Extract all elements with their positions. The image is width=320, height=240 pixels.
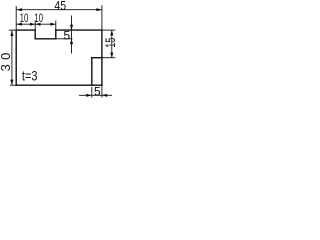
bend line horizontal xyxy=(92,57,102,59)
bend line vertical xyxy=(91,58,93,85)
arrow 30 top (points up) xyxy=(10,31,13,36)
arrow 30 bottom (points down) xyxy=(10,80,13,85)
extension line notch right wall up xyxy=(55,21,57,31)
arrow 10 right at 55.7 xyxy=(50,23,55,26)
extension notch bottom to right xyxy=(56,38,73,40)
extension line notch left wall up xyxy=(34,21,36,31)
arrow 5 notch top (points down, tip at top edge) xyxy=(70,25,73,30)
notch left wall xyxy=(34,30,36,39)
extension bend line right (for 15 dim) xyxy=(102,57,115,59)
svg-text:45: 45 xyxy=(54,0,66,13)
dim line 5 notch vertical xyxy=(71,16,73,54)
extension bottom edge left (for 30 dim) xyxy=(10,84,16,86)
svg-text:t=3: t=3 xyxy=(22,67,38,83)
extension line left top (for 45/10 dims) xyxy=(15,6,17,30)
arrow 45 right xyxy=(96,8,101,11)
arrow 5 bottom right (points left, tip at 101.9) xyxy=(102,94,107,97)
notch bottom xyxy=(35,38,56,40)
dim line 15 xyxy=(111,30,113,57)
arrow 10 left at 16.5 xyxy=(17,23,22,26)
arrow 15 bottom (points down) xyxy=(110,53,113,58)
extension top edge left (for 30 dim) xyxy=(9,29,16,31)
arrow 45 left xyxy=(17,8,22,11)
extension top edge right (for 15 dim) xyxy=(102,29,115,31)
dim line 5 bottom with tails xyxy=(79,94,92,96)
part bottom edge xyxy=(16,84,102,86)
dim line 45 xyxy=(17,9,102,11)
svg-text:15: 15 xyxy=(102,37,118,48)
dim line 10,10 xyxy=(17,23,56,25)
part outline: top-right segment xyxy=(56,29,102,31)
dim line 30 xyxy=(11,30,13,85)
extension line right top (for 45 dim) xyxy=(101,5,103,30)
notch right wall xyxy=(55,30,57,39)
arrow 5 notch bottom (points up, tip at notch bottom ext) xyxy=(70,39,73,44)
part outline: top-left segment xyxy=(16,29,35,31)
arrow 15 top (points up) xyxy=(110,30,113,35)
part right edge xyxy=(101,30,103,85)
extension bottom-left of 5 dim bottom xyxy=(91,87,93,98)
extension bottom-right of 5 dim bottom xyxy=(101,85,103,97)
svg-text:5: 5 xyxy=(94,84,101,98)
svg-text:10: 10 xyxy=(34,11,43,25)
svg-text:5: 5 xyxy=(63,29,70,43)
part left edge xyxy=(15,30,17,85)
svg-text:10: 10 xyxy=(20,11,29,25)
arrow 5 bottom left (points right, tip at 91.5) xyxy=(86,94,91,97)
arrows 10 middle meeting at 35.2 xyxy=(30,23,35,26)
